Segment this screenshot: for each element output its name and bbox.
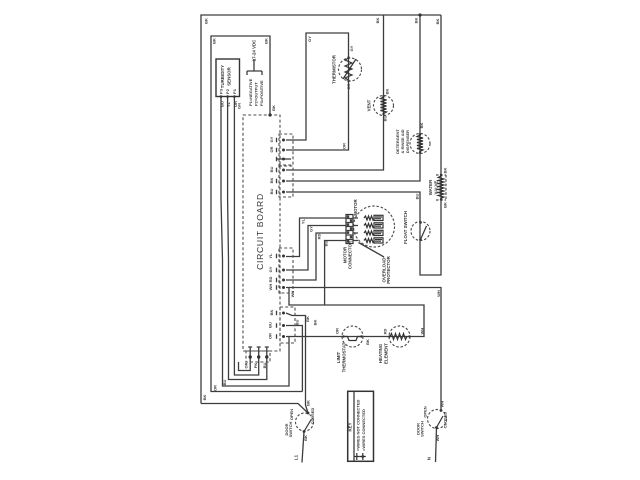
- wire OR heating loop with WH return: [286, 288, 424, 337]
- detergent dispenser solenoid dashed circle: [410, 134, 430, 154]
- svg-text:SWITCH: SWITCH: [420, 421, 425, 437]
- svg-text:MOTOR: MOTOR: [353, 199, 358, 216]
- svg-text:BU: BU: [415, 194, 420, 200]
- connector CN3 dashed (motor pins): [279, 248, 293, 293]
- pin no-connect stub: [277, 158, 292, 160]
- svg-text:BK: BK: [365, 339, 370, 345]
- motor windings: [364, 215, 383, 243]
- svg-text:BK: BK: [313, 320, 318, 326]
- wire dispenser BK: [286, 15, 420, 181]
- wire thermistor loop GY/OR: [286, 33, 349, 150]
- water valve solenoid: [438, 176, 444, 199]
- svg-text:BU: BU: [262, 363, 267, 369]
- key symbol wires not connected: [354, 453, 360, 460]
- svg-text:BU: BU: [295, 320, 300, 326]
- motor connector block: [346, 215, 358, 244]
- svg-text:BK: BK: [204, 18, 209, 24]
- svg-text:FLOAT SWITCH: FLOAT SWITCH: [403, 211, 408, 244]
- wire motor connector pin4 to WH return: [325, 241, 346, 306]
- wire BK pin diagonal: [286, 313, 308, 413]
- svg-text:OR: OR: [335, 328, 340, 334]
- svg-text:BK: BK: [269, 178, 274, 184]
- svg-text:THERMISTOR: THERMISTOR: [332, 54, 337, 84]
- svg-text:VALVE: VALVE: [434, 180, 439, 194]
- overload protector pointer: [359, 243, 385, 258]
- svg-text:WH: WH: [440, 401, 445, 408]
- wire vent BU/BK: [286, 15, 384, 170]
- connector CN2 dashed (vent/dispenser/float pins): [279, 166, 293, 197]
- svg-text:BU: BU: [222, 380, 227, 386]
- svg-text:N: N: [427, 457, 432, 460]
- svg-text:HEATING: HEATING: [378, 343, 383, 363]
- svg-text:BK: BK: [271, 105, 276, 111]
- wire BU pin stub: [286, 326, 302, 392]
- svg-text:OPEN: OPEN: [423, 406, 428, 417]
- svg-text:BK: BK: [375, 18, 380, 24]
- limit thermostat dashed circle: [342, 326, 363, 347]
- svg-text:CIRCUIT BOARD: CIRCUIT BOARD: [255, 193, 265, 270]
- svg-text:BK: BK: [212, 38, 217, 44]
- svg-text:OR: OR: [346, 83, 351, 89]
- wire right door switch to N: [436, 428, 437, 463]
- svg-text:GY: GY: [268, 266, 273, 272]
- svg-text:BK: BK: [414, 18, 419, 24]
- key symbol wires connected: [360, 453, 366, 460]
- turbidity sensor box: [216, 59, 240, 97]
- wire BK rect: circuit board supply loop V2: [211, 36, 302, 392]
- wire S3 turbidity P1 wrap to PK pin: [234, 97, 258, 376]
- node junction BK wire to circuit board: [268, 113, 271, 116]
- svg-text:=WIRES CONNECTED: =WIRES CONNECTED: [361, 409, 366, 451]
- svg-text:YL: YL: [268, 253, 273, 259]
- svg-text:OR: OR: [244, 362, 249, 368]
- float switch arm: [421, 226, 427, 240]
- svg-text:OPEN: OPEN: [289, 409, 294, 420]
- svg-text:WATER: WATER: [428, 179, 433, 195]
- pin dots circuit board right edge: [282, 139, 285, 339]
- svg-text:WH: WH: [290, 291, 295, 298]
- wire RD motor stair: [286, 233, 346, 280]
- dispenser coil: [417, 135, 423, 152]
- vent wax motor dashed circle: [374, 96, 394, 116]
- connector CN4 dashed (heater pins): [280, 307, 295, 343]
- svg-text:BU: BU: [383, 116, 388, 122]
- thermistor RT1 zigzag: [345, 58, 352, 80]
- door switch S2 arm: [437, 416, 444, 428]
- vent heater coil: [381, 97, 387, 114]
- svg-text:17-24 VDC: 17-24 VDC: [252, 39, 257, 62]
- svg-text:OR: OR: [268, 333, 273, 339]
- svg-text:BK: BK: [443, 202, 448, 208]
- svg-text:ELEMENT: ELEMENT: [384, 343, 389, 364]
- key divider under KEY title: [353, 391, 355, 461]
- svg-text:YL: YL: [226, 101, 231, 107]
- wire YL motor stair: [286, 218, 346, 257]
- heating element zigzag: [390, 334, 407, 340]
- svg-text:P2: P2: [225, 88, 230, 94]
- wire S2 turbidity P2 wrap to BU pin: [228, 97, 267, 380]
- wire GY motor stair: [286, 226, 346, 271]
- svg-text:GY: GY: [309, 226, 314, 232]
- svg-text:BU: BU: [269, 167, 274, 173]
- svg-text:GY: GY: [349, 45, 354, 51]
- svg-text:BU: BU: [268, 322, 273, 328]
- svg-text:WH: WH: [435, 435, 440, 442]
- svg-text:PK: PK: [253, 363, 258, 369]
- svg-text:SENSOR: SENSOR: [227, 66, 232, 85]
- svg-text:OR: OR: [269, 146, 274, 152]
- svg-text:VENT: VENT: [367, 99, 372, 111]
- svg-text:LIMIT: LIMIT: [336, 351, 341, 363]
- wire WH neutral long run to right door switch: [286, 288, 441, 411]
- svg-text:PROTECTOR: PROTECTOR: [386, 255, 391, 283]
- turbidity sensor pin dots: [220, 95, 236, 98]
- svg-text:CONNECTOR: CONNECTOR: [348, 240, 353, 269]
- svg-text:BU: BU: [220, 101, 225, 107]
- door switch S2 (N side) dashed circle: [428, 410, 447, 429]
- svg-text:BU: BU: [324, 241, 329, 247]
- svg-text:KEY: KEY: [347, 422, 352, 431]
- circuit board U1 dashed outline: [243, 115, 280, 351]
- svg-text:P1: P1: [232, 88, 237, 94]
- svg-text:GY: GY: [269, 136, 274, 142]
- svg-text:P3: P3: [219, 88, 224, 94]
- svg-text:=WIRES NOT CONNECTED: =WIRES NOT CONNECTED: [355, 399, 360, 451]
- svg-text:OR: OR: [213, 385, 218, 391]
- pin T-bars circuit board edge: [276, 138, 278, 339]
- svg-text:BK: BK: [264, 38, 269, 44]
- svg-text:RD: RD: [383, 329, 388, 335]
- svg-text:GN: GN: [237, 103, 242, 109]
- svg-text:SWITCH: SWITCH: [288, 422, 293, 438]
- wire left door switch to L1: [302, 432, 304, 463]
- svg-text:TURBIDITY: TURBIDITY: [220, 65, 225, 88]
- heating element dashed circle: [389, 326, 410, 347]
- float switch dashed circle: [411, 222, 430, 241]
- svg-text:CLOSED: CLOSED: [443, 412, 448, 429]
- pin stubs and dots circuit board bottom edge: [248, 347, 269, 359]
- svg-text:BK: BK: [306, 400, 311, 406]
- svg-text:GY: GY: [307, 36, 312, 42]
- svg-text:CLOSED: CLOSED: [310, 408, 315, 425]
- svg-text:WH: WH: [268, 284, 273, 291]
- wire S1 turbidity P3 wrap to BK node: [221, 97, 289, 387]
- svg-text:WH: WH: [420, 328, 425, 335]
- svg-text:BU: BU: [269, 189, 274, 195]
- svg-text:L1: L1: [294, 454, 299, 460]
- svg-text:DISPENSER: DISPENSER: [405, 130, 410, 153]
- svg-text:BK: BK: [443, 168, 448, 174]
- wire B6 stub to OR pin: [239, 357, 251, 371]
- svg-text:BK: BK: [419, 123, 424, 129]
- wire L1 black supply: outer frame left+top rail: [201, 15, 441, 404]
- motor M1 dashed circle: [354, 206, 395, 247]
- svg-text:BK: BK: [269, 310, 274, 316]
- svg-text:YL: YL: [301, 218, 306, 224]
- wire float switch / water valve BK: [286, 15, 441, 275]
- svg-text:P1=NEGATIVE: P1=NEGATIVE: [248, 78, 253, 106]
- node junction BK top rail to dispenser: [418, 13, 421, 16]
- thermistor RT1 dashed circle: [339, 58, 362, 81]
- door switch S1 (L1 side) dashed circle: [296, 413, 314, 431]
- svg-text:BK: BK: [385, 89, 390, 95]
- svg-text:RD: RD: [268, 277, 273, 283]
- svg-text:BK: BK: [435, 19, 440, 25]
- svg-text:WH: WH: [436, 290, 441, 297]
- svg-text:BK: BK: [305, 316, 310, 322]
- svg-text:OR: OR: [342, 143, 347, 149]
- svg-text:BK: BK: [303, 435, 308, 441]
- bracket 17-24 VDC: [247, 59, 262, 75]
- svg-text:P3=POSITIVE: P3=POSITIVE: [259, 80, 264, 106]
- connector CN1 dashed (thermistor pins): [279, 134, 293, 165]
- svg-text:P2=OUTPUT: P2=OUTPUT: [254, 82, 259, 106]
- limit thermostat symbol: [344, 337, 361, 341]
- svg-text:THERMOSTAT: THERMOSTAT: [342, 342, 347, 372]
- svg-text:RD: RD: [317, 234, 322, 240]
- wire B1 bottom outer to left door switch: [201, 404, 308, 414]
- door switch S1 arm: [304, 419, 312, 432]
- key box: [348, 391, 374, 461]
- svg-text:BK: BK: [202, 395, 207, 401]
- connector CN5 dashed (turbidity bottom pins): [246, 351, 270, 362]
